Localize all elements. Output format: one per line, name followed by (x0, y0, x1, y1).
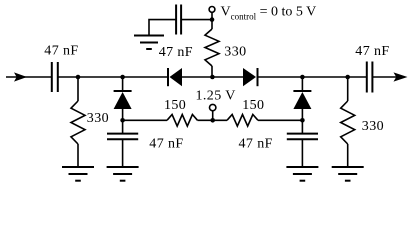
svg-text:150: 150 (242, 98, 264, 113)
resistor R3 330 (205, 29, 219, 66)
input arrowhead (14, 72, 27, 81)
svg-text:47 nF: 47 nF (149, 137, 183, 152)
node junction E (210, 17, 215, 22)
wire capacitor C5 to ground (149, 20, 176, 36)
wire middle row left (123, 119, 167, 121)
node junction A (76, 75, 81, 80)
wire Vcontrol terminal down to resistor R3 (211, 12, 213, 29)
wire diode D2 anode to node G (301, 109, 303, 120)
ground G0 (134, 36, 164, 50)
diode D1 shunt left (cathode bar) (114, 90, 132, 92)
svg-text:1.25 V: 1.25 V (196, 89, 236, 104)
svg-text:150: 150 (164, 98, 186, 113)
diode D3 series left (triangle) (170, 68, 183, 86)
wire node A to resistor R1 (77, 77, 79, 101)
capacitor C2 output 47 nF (366, 62, 368, 93)
ground G2 (107, 167, 139, 181)
resistor R2 330 (341, 101, 355, 144)
svg-text:47 nF: 47 nF (44, 44, 78, 59)
ground G3 (286, 167, 318, 181)
wire capacitor C4 to ground (301, 139, 303, 167)
diode D4 series right (triangle) (243, 68, 256, 86)
wire resistor R2 to ground (347, 144, 349, 167)
terminal Vcontrol (open circle) (209, 6, 215, 12)
wire node F to diode D2 cathode (301, 77, 303, 91)
diode D2 shunt right (triangle) (293, 92, 311, 109)
node junction D (210, 75, 215, 80)
resistor R5 150 (227, 115, 258, 127)
ground G4 (332, 167, 364, 181)
node junction H (345, 75, 350, 80)
wire main line middle section (182, 76, 243, 78)
diode D4 series right (cathode bar) (257, 68, 259, 86)
capacitor C4 47 nF (287, 133, 318, 135)
wire resistor R1 to ground (77, 144, 79, 167)
diode D2 shunt right (cathode bar) (293, 90, 311, 92)
svg-text:Vcontrol = 0 to 5 V: Vcontrol = 0 to 5 V (221, 5, 317, 22)
node junction I (210, 118, 215, 123)
node junction F (300, 75, 305, 80)
svg-text:47 nF: 47 nF (239, 137, 273, 152)
svg-text:47 nF: 47 nF (159, 45, 193, 60)
resistor R4 150 (167, 115, 198, 127)
wire node H to resistor R2 (347, 77, 349, 101)
wire output line (372, 76, 403, 78)
output arrowhead (394, 72, 408, 81)
node junction B (120, 75, 125, 80)
wire 1.25 V terminal to node I (212, 111, 214, 121)
svg-text:330: 330 (362, 119, 384, 134)
wire node B to diode D1 cathode (122, 77, 124, 91)
svg-text:47 nF: 47 nF (355, 44, 389, 59)
svg-text:330: 330 (224, 45, 246, 60)
capacitor C1 input 47 nF (51, 62, 53, 92)
wire capacitor C3 to ground (122, 139, 124, 167)
wire node C to capacitor C3 (122, 120, 124, 133)
resistor R1 330 (71, 101, 85, 144)
diode D3 series left (cathode bar) (167, 68, 169, 86)
wire node E to capacitor C5 (181, 19, 212, 21)
diode D1 shunt left (triangle) (114, 92, 132, 109)
node junction G (300, 118, 305, 123)
wire middle row right (258, 119, 302, 121)
svg-text:330: 330 (87, 111, 109, 126)
wire resistor R3 to node D (211, 66, 213, 77)
capacitor C5 47 nF (175, 5, 177, 35)
node junction C (120, 118, 125, 123)
capacitor C3 47 nF (107, 133, 138, 135)
wire diode D1 anode to node C (122, 109, 124, 120)
terminal 1.25 V (open circle) (210, 104, 216, 110)
wire main line right section (258, 76, 367, 78)
wire main line left section (58, 76, 168, 78)
ground G1 (62, 167, 94, 181)
wire middle row center (198, 119, 228, 121)
wire input line (6, 76, 52, 78)
wire node G to capacitor C4 (301, 120, 303, 133)
